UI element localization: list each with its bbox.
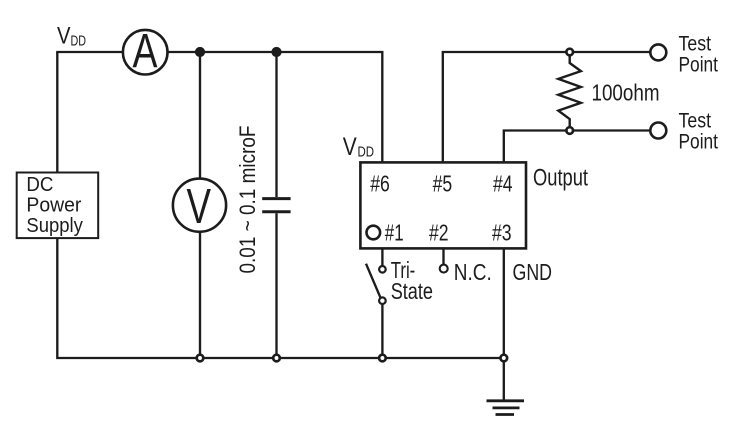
junction: top wire / capacitor branch	[272, 47, 281, 56]
node VDD label at IC	[343, 133, 374, 161]
node VDD (supply label, top left)	[57, 23, 86, 50]
switch SW1 Tri-State	[366, 257, 433, 304]
svg-text:DD: DD	[358, 144, 375, 161]
wire: junction down to voltmeter	[199, 52, 201, 179]
wire: pin4 output up and right to test point TP2	[504, 131, 650, 163]
IC U1 (oscillator, 6-pin)	[360, 162, 526, 248]
ground	[487, 401, 525, 415]
svg-text:#4: #4	[493, 171, 513, 197]
wire: pin5 up and right to test point TP1	[443, 52, 650, 162]
pin 1 index circle	[367, 226, 381, 240]
svg-text:DC: DC	[26, 173, 53, 196]
svg-text:Point: Point	[679, 130, 719, 153]
svg-text:100ohm: 100ohm	[592, 80, 660, 106]
svg-text:Output: Output	[533, 165, 588, 192]
junction: bottom rail / capacitor	[273, 355, 280, 362]
wire: voltmeter down to bottom rail	[199, 232, 201, 358]
pin 2 N.C. stub	[440, 248, 492, 285]
svg-text:V: V	[343, 133, 357, 161]
wire: switch down to bottom rail	[381, 304, 383, 358]
svg-text:0.01 ~ 0.1 microF: 0.01 ~ 0.1 microF	[235, 126, 260, 274]
wire: ammeter to IC pin6, with corner down	[168, 52, 383, 163]
wire: pin3 GND down to rail and ground	[503, 248, 505, 400]
svg-text:GND: GND	[513, 259, 553, 285]
junction: R1 bottom / output line	[566, 127, 573, 134]
svg-text:DD: DD	[71, 32, 87, 49]
svg-text:A: A	[133, 25, 158, 78]
junction: top wire / voltmeter branch	[195, 47, 204, 56]
wire: VDD corner down to DC supply box	[56, 52, 58, 173]
svg-text:#5: #5	[433, 171, 453, 197]
svg-text:Supply: Supply	[26, 214, 83, 237]
svg-text:Test: Test	[679, 109, 712, 132]
test point TP2	[650, 109, 718, 153]
svg-text:#3: #3	[492, 220, 512, 246]
DC power supply PS1	[17, 173, 99, 239]
svg-text:V: V	[187, 180, 212, 234]
svg-text:Test: Test	[679, 33, 712, 56]
resistor R1 100ohm	[558, 52, 659, 131]
junction: bottom rail / voltmeter	[197, 355, 204, 362]
svg-text:V: V	[57, 23, 71, 50]
wire: capacitor down to bottom rail	[275, 213, 277, 358]
ammeter U-A	[123, 25, 168, 78]
svg-text:#6: #6	[370, 171, 390, 197]
capacitor C1	[262, 199, 290, 212]
wire: pin1 down to switch	[381, 248, 383, 265]
wire: DC supply down and bottom rail to GND node	[57, 238, 504, 358]
junction: bottom rail / switch	[379, 355, 386, 362]
svg-text:#2: #2	[429, 220, 449, 246]
test point TP1	[650, 33, 718, 77]
junction: bottom rail / GND wire	[501, 355, 508, 362]
wire: VDD corner right to ammeter	[56, 51, 123, 53]
svg-text:Point: Point	[679, 53, 719, 76]
wire: junction down to capacitor C1	[275, 52, 277, 197]
svg-text:#1: #1	[385, 220, 404, 246]
svg-text:State: State	[391, 278, 433, 304]
svg-text:N.C.: N.C.	[454, 259, 492, 285]
junction: R1 top / TP1 line	[566, 49, 573, 56]
voltmeter U-V	[173, 179, 226, 234]
